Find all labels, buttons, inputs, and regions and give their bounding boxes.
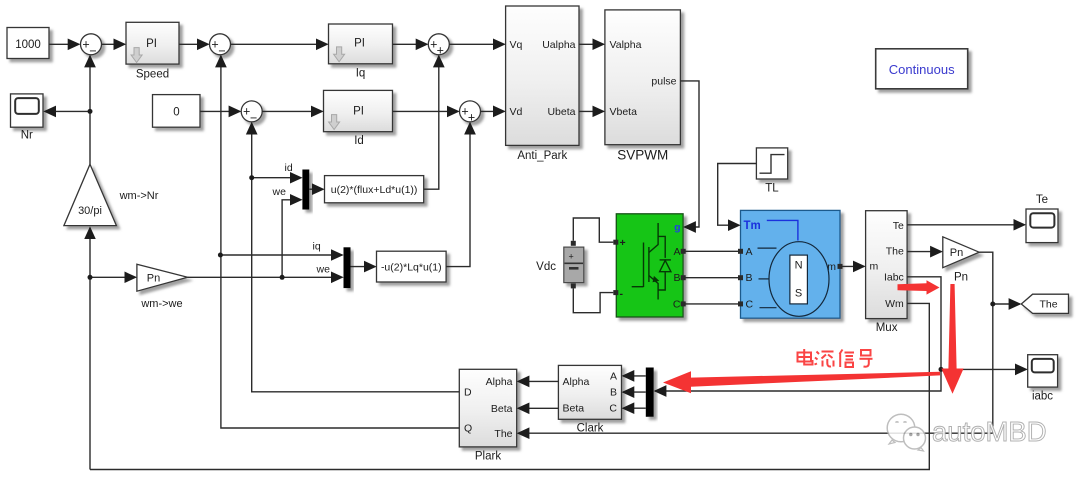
svg-text:Pn: Pn: [147, 272, 160, 284]
svg-text:B: B: [610, 387, 617, 399]
inverter bridge (green): [613, 214, 685, 317]
sum S2 (iq error): [210, 34, 231, 58]
svg-text:Speed: Speed: [136, 69, 169, 81]
junction dot iq branch: [218, 253, 223, 258]
svg-text:The: The: [494, 428, 512, 440]
wire Fcn1 -> S3: [424, 56, 439, 189]
svg-text:Te: Te: [893, 220, 904, 232]
wire Pn -> mux M2 (we): [188, 276, 343, 278]
subsystem SVPWM: [605, 10, 681, 163]
wire iq branch -> mux M2: [220, 254, 342, 256]
wire battery + -> inverter +: [573, 218, 613, 242]
wire battery - -> inverter -: [573, 288, 613, 312]
svg-text:−: −: [250, 111, 257, 125]
IGBT + diode icon: [632, 223, 671, 300]
wire 30/pi -> S1: [89, 56, 91, 164]
gain 30/pi (wm->Nr): [64, 164, 117, 225]
svg-text:+: +: [468, 111, 475, 125]
wire Fcn2 -> S5: [446, 123, 470, 266]
svg-text:Ualpha: Ualpha: [542, 39, 575, 51]
svg-text:D: D: [464, 386, 472, 398]
wire demux -> Clark B: [623, 391, 646, 393]
red annotation text 电流信号: [798, 349, 873, 367]
svg-text:B: B: [673, 272, 680, 284]
svg-text:+: +: [569, 252, 574, 262]
PI block Speed: [126, 22, 179, 80]
junction dot The tag: [990, 302, 995, 307]
ports on motor: [738, 249, 743, 254]
svg-text:Iabc: Iabc: [884, 271, 904, 283]
svg-text:Wm: Wm: [885, 298, 904, 310]
wire Iq -> S3: [393, 43, 428, 45]
mux M1 (id,we): [302, 170, 309, 210]
wire Mux Wm -> bottom loop: [90, 303, 929, 469]
constant block 0: [153, 95, 201, 128]
svg-text:autoMBD: autoMBD: [932, 416, 1047, 447]
svg-text:m: m: [870, 261, 879, 273]
wire Clark Alpha -> Plark: [518, 380, 558, 382]
svg-text:PI: PI: [146, 38, 157, 50]
wire junction -> scope iabc: [941, 368, 1026, 370]
wire Pn -> corner (elec angle): [979, 252, 993, 433]
svg-text:we: we: [316, 264, 331, 276]
wire branch -> Nr scope: [45, 110, 90, 112]
svg-text:-: -: [620, 288, 624, 300]
svg-text:SVPWM: SVPWM: [617, 148, 668, 163]
svg-text:Beta: Beta: [491, 403, 513, 415]
svg-text:Plark: Plark: [475, 451, 501, 463]
svg-text:iq: iq: [313, 241, 321, 253]
rotor ellipse: [769, 242, 829, 317]
wire Ubeta -> Vbeta: [579, 110, 604, 112]
svg-text:−: −: [218, 44, 225, 58]
svg-text:Ubeta: Ubeta: [547, 106, 575, 118]
wire speed feedback vertical (Wm loop up): [89, 228, 91, 470]
wire Mux The -> Pn: [907, 251, 941, 253]
svg-text:C: C: [609, 403, 617, 415]
constant block 1000: [7, 28, 49, 59]
step block TL: [756, 148, 787, 195]
wire demux -> Clark A: [623, 375, 646, 377]
svg-text:Anti_Park: Anti_Park: [517, 150, 567, 162]
svg-text:−: −: [89, 44, 96, 58]
svg-text:30/pi: 30/pi: [78, 205, 102, 217]
svg-text:Vbeta: Vbeta: [610, 106, 638, 118]
svg-text:A: A: [610, 370, 617, 382]
watermark logo (chat bubbles): [887, 414, 925, 451]
wire Mux Te -> scope Te: [907, 224, 1025, 226]
wire inverter A -> motor A: [683, 250, 740, 252]
svg-text:C: C: [673, 298, 681, 310]
svg-text:Mux: Mux: [876, 322, 898, 334]
subsystem Anti_Park: [506, 6, 579, 162]
svg-text:PI: PI: [353, 106, 364, 118]
wire inverter B -> motor B: [683, 277, 740, 279]
svg-text:B: B: [746, 272, 753, 284]
junction dot Pn branch: [88, 275, 93, 280]
wire S4 -> Id: [262, 110, 322, 112]
svg-text:wm->Nr: wm->Nr: [119, 190, 159, 202]
wire Plark Q -> S2 (iq feedback): [221, 56, 459, 428]
svg-text:g: g: [674, 222, 680, 234]
sum S3 (Vq sum): [428, 34, 449, 58]
wire branch -> Pn: [90, 276, 136, 278]
svg-text:id: id: [285, 162, 293, 174]
wire id branch -> mux M1: [252, 177, 301, 179]
wire Mux Iabc -> junction: [907, 277, 941, 370]
svg-text:Pn: Pn: [950, 247, 963, 259]
wire Id -> S5: [393, 110, 459, 112]
red arrow small (Iabc): [898, 280, 940, 294]
svg-text:Pn: Pn: [954, 272, 968, 284]
svg-text:Iq: Iq: [356, 68, 366, 80]
wire motor m -> Mux: [843, 265, 865, 267]
scope iabc: [1028, 355, 1058, 403]
svg-text:N: N: [795, 260, 803, 272]
svg-text:iabc: iabc: [1032, 391, 1053, 403]
svg-text:+: +: [620, 237, 626, 249]
red arrow left (current signal): [663, 371, 940, 393]
svg-text:Alpha: Alpha: [486, 376, 513, 388]
sum S1 (speed error): [81, 34, 102, 58]
gain Pn (wm->we): [137, 264, 188, 291]
wire The -> Plark The: [518, 432, 993, 434]
PI block Iq: [329, 24, 393, 80]
demux (iabc -> A,B,C): [646, 368, 654, 417]
wire M1 -> Fcn1: [309, 188, 323, 190]
svg-text:PI: PI: [354, 38, 365, 50]
svg-text:TL: TL: [765, 183, 779, 195]
wire 0 -> S4: [200, 110, 240, 112]
wire Speed -> S2: [179, 43, 208, 45]
svg-text:u(2)*(flux+Ld*u(1)): u(2)*(flux+Ld*u(1)): [331, 184, 418, 196]
wire S2 -> Iq: [231, 43, 328, 45]
Fcn block -u(2)*Lq*u(1): [377, 251, 447, 282]
wire Ualpha -> Valpha: [579, 43, 604, 45]
wire S5 -> Anti_Park Vd: [481, 110, 505, 112]
wire 1000 -> S1: [49, 43, 79, 45]
wire inverter C -> motor C: [683, 303, 740, 305]
svg-text:pulse: pulse: [651, 75, 676, 87]
svg-text:Alpha: Alpha: [563, 376, 590, 388]
svg-text:Nr: Nr: [21, 130, 33, 142]
output tag The: [1021, 294, 1068, 313]
wire junction -> demux: [655, 369, 941, 391]
svg-text:1000: 1000: [15, 39, 41, 51]
junction dot id branch: [249, 175, 254, 180]
svg-text:Vdc: Vdc: [536, 261, 556, 273]
wire branch -> tag The: [993, 303, 1020, 305]
wire Plark D -> S4 (id feedback): [252, 123, 460, 392]
wire Clark Beta -> Plark: [518, 407, 558, 409]
svg-text:Vq: Vq: [510, 39, 523, 51]
svg-text:C: C: [746, 298, 754, 310]
wire S1 -> Speed: [102, 43, 125, 45]
scope Nr: [11, 94, 44, 142]
subsystem Clark (flipped): [558, 365, 621, 434]
svg-text:Vd: Vd: [510, 106, 523, 118]
svg-text:0: 0: [173, 107, 179, 119]
red arrow down: [941, 284, 963, 394]
wire pulse -> g: [680, 81, 699, 227]
svg-text:A: A: [673, 246, 680, 258]
svg-text:The: The: [886, 246, 904, 258]
svg-text:S: S: [795, 287, 802, 299]
svg-text:The: The: [1039, 299, 1057, 311]
svg-text:Te: Te: [1036, 194, 1048, 206]
wire we branch -> mux M1: [282, 200, 301, 277]
annotation Continuous (powergui): [876, 49, 968, 89]
gain Pn (The->elec angle): [943, 237, 979, 268]
PI block Id: [324, 90, 393, 147]
svg-text:Valpha: Valpha: [610, 39, 642, 51]
sum S5 (Vd sum): [460, 101, 481, 125]
svg-text:wm->we: wm->we: [140, 298, 182, 310]
DC source Vdc: [564, 241, 584, 289]
wire M2 -> Fcn2: [351, 266, 376, 268]
junction dot iabc: [939, 367, 944, 372]
wire S3 -> Anti_Park Vq: [449, 43, 504, 45]
ports on green block: [613, 240, 618, 245]
sum S4 (id error): [241, 101, 262, 125]
svg-text:Beta: Beta: [563, 403, 585, 415]
mux M2 (iq,we): [344, 247, 351, 288]
svg-text:Q: Q: [464, 423, 472, 435]
PMSM motor (blue): [738, 210, 843, 318]
subsystem Plark (Park, flipped): [459, 369, 516, 462]
Fcn block u(2)*(flux+Ld*u(1)): [325, 176, 424, 203]
svg-text:Tm: Tm: [744, 220, 761, 232]
svg-text:Continuous: Continuous: [889, 62, 955, 77]
wire demux -> Clark C: [623, 407, 646, 409]
svg-text:we: we: [272, 186, 287, 198]
svg-text:Id: Id: [354, 135, 364, 147]
svg-text:+: +: [437, 44, 444, 58]
svg-text:-u(2)*Lq*u(1): -u(2)*Lq*u(1): [381, 261, 442, 273]
junction dot Nr branch: [88, 109, 93, 114]
subsystem Mux (measurements): [866, 211, 908, 334]
junction dot we branch: [280, 275, 285, 280]
scope Te: [1026, 194, 1058, 243]
wire TL -> Tm: [718, 164, 757, 226]
svg-text:A: A: [746, 246, 753, 258]
